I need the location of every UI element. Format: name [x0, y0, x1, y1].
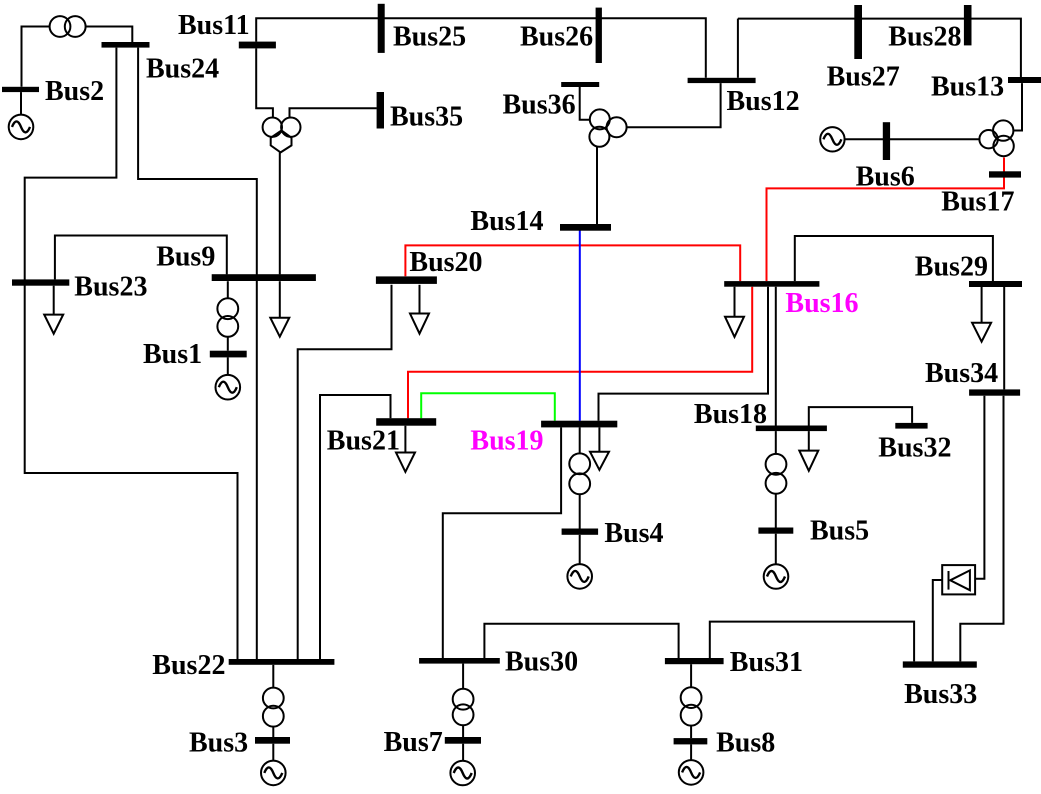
- svg-text:Bus24: Bus24: [146, 54, 219, 85]
- svg-text:Bus28: Bus28: [888, 22, 961, 53]
- svg-text:Bus35: Bus35: [390, 102, 463, 133]
- svg-text:Bus26: Bus26: [520, 22, 593, 53]
- svg-text:Bus27: Bus27: [827, 62, 900, 93]
- svg-text:Bus8: Bus8: [716, 728, 775, 759]
- svg-text:Bus36: Bus36: [503, 90, 576, 121]
- svg-text:Bus5: Bus5: [810, 516, 869, 547]
- svg-text:Bus22: Bus22: [152, 650, 225, 681]
- svg-text:Bus18: Bus18: [694, 399, 767, 430]
- svg-text:Bus4: Bus4: [604, 518, 663, 549]
- svg-text:Bus31: Bus31: [730, 647, 803, 678]
- svg-text:Bus16: Bus16: [785, 288, 858, 319]
- svg-text:Bus17: Bus17: [941, 187, 1014, 218]
- svg-text:Bus34: Bus34: [925, 358, 998, 389]
- svg-text:Bus29: Bus29: [915, 252, 988, 283]
- svg-text:Bus32: Bus32: [878, 433, 951, 464]
- svg-text:Bus30: Bus30: [505, 647, 578, 678]
- svg-text:Bus11: Bus11: [178, 10, 250, 41]
- svg-text:Bus7: Bus7: [384, 727, 443, 758]
- svg-text:Bus23: Bus23: [74, 272, 147, 303]
- svg-text:Bus21: Bus21: [327, 426, 400, 457]
- svg-text:Bus6: Bus6: [856, 162, 915, 193]
- svg-text:Bus25: Bus25: [393, 22, 466, 53]
- svg-text:Bus33: Bus33: [904, 679, 977, 710]
- svg-text:Bus19: Bus19: [470, 426, 543, 457]
- svg-text:Bus12: Bus12: [727, 86, 800, 117]
- svg-text:Bus20: Bus20: [409, 247, 482, 278]
- svg-text:Bus13: Bus13: [931, 72, 1004, 103]
- svg-text:Bus1: Bus1: [143, 339, 202, 370]
- svg-text:Bus9: Bus9: [156, 242, 215, 273]
- svg-text:Bus3: Bus3: [189, 728, 248, 759]
- svg-text:Bus2: Bus2: [45, 76, 104, 107]
- svg-text:Bus14: Bus14: [470, 206, 543, 237]
